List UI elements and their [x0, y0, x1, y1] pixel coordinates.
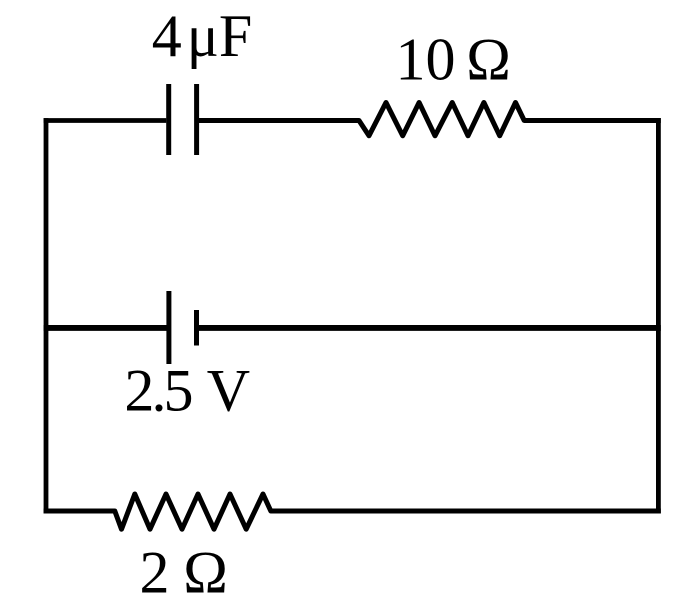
battery V1 2.5V: long plate (positive): [166, 291, 171, 364]
wire: top-left segment (left rail to capacitor): [44, 118, 167, 123]
wire + resistor R2 2ohm zigzag (bottom rail): [44, 494, 661, 529]
wire: middle-right segment (battery to right rail): [197, 325, 661, 331]
wire: left vertical rail: [44, 118, 49, 513]
svg-text:V: V: [207, 358, 250, 424]
capacitor C1 4uF: left plate: [166, 84, 171, 155]
svg-text:μF: μF: [187, 3, 253, 69]
capacitor C1 4uF: right plate: [194, 84, 199, 155]
svg-text:10: 10: [396, 27, 456, 93]
svg-text:Ω: Ω: [466, 27, 511, 93]
svg-text:4: 4: [152, 3, 182, 69]
wire: right vertical rail: [656, 118, 661, 513]
wire: middle-left segment (left rail to battery): [44, 325, 169, 331]
svg-text:2.5: 2.5: [124, 358, 191, 424]
wire + resistor R1 10ohm zigzag (capacitor to right rail): [197, 103, 661, 136]
battery V1 2.5V: short plate (negative): [194, 310, 199, 346]
svg-text:Ω: Ω: [183, 540, 228, 599]
svg-text:2: 2: [140, 540, 170, 599]
